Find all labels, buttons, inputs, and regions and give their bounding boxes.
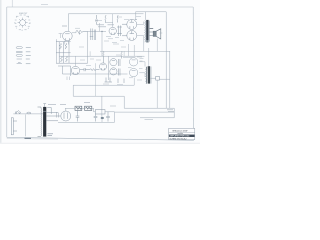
caption under bottom border bbox=[25, 137, 32, 139]
speaker 1 bbox=[149, 29, 160, 39]
mains input terminal bbox=[11, 118, 17, 135]
vertical from lower amp to dist bbox=[133, 78, 135, 86]
output tube V4 bbox=[127, 30, 137, 40]
plate resistors above driver row bbox=[95, 15, 118, 25]
OPT2 primary winding bbox=[145, 67, 148, 84]
mains wires and switch bbox=[13, 113, 43, 115]
OPT2 core bar bbox=[148, 66, 150, 83]
wire: drop to V1 bbox=[67, 14, 69, 31]
psu label dashes bbox=[48, 103, 116, 106]
drawing border frame bbox=[7, 7, 194, 141]
driver cluster noise bbox=[104, 37, 124, 43]
socket ticks bbox=[57, 113, 59, 118]
rectifier tube bbox=[61, 111, 71, 121]
tube V1 bbox=[63, 31, 73, 41]
output tube V3 bbox=[127, 19, 137, 29]
third filter box bbox=[95, 110, 105, 114]
wire: drop to V3 top cap bbox=[135, 12, 137, 20]
filter wiring bbox=[65, 108, 115, 112]
cap cluster right of V1 bbox=[90, 29, 96, 41]
power transformer primary winding bbox=[38, 107, 42, 136]
transformer side leads bbox=[46, 112, 60, 121]
tube pinout circle bbox=[18, 18, 28, 28]
junction dot bbox=[101, 31, 102, 32]
tube pinout label 6SN7GT bbox=[19, 13, 28, 15]
filter chokes bbox=[75, 106, 92, 110]
resistor bank zigzags bbox=[60, 43, 68, 62]
mid horizontal rail y56 bbox=[59, 55, 144, 57]
wire: drop to OPT1 bbox=[145, 12, 147, 20]
tube V2 bbox=[109, 27, 116, 34]
V1 grid resistor left bbox=[59, 34, 63, 39]
vertical bus at x87.6 bbox=[87, 31, 89, 63]
wire y74 lower row bbox=[71, 73, 128, 75]
plate leads to OPT2 bbox=[139, 62, 145, 77]
V2 plate to top rail bbox=[112, 14, 114, 27]
OPT1 secondary line bbox=[148, 21, 150, 42]
label above transformer bbox=[48, 134, 54, 136]
wire: upper cap rail bbox=[136, 11, 167, 13]
left bus vertical bbox=[56, 39, 58, 63]
plate leads to OPT1 bbox=[136, 22, 143, 41]
label dashes under rail bbox=[167, 110, 174, 112]
plate wire V1 to driver bbox=[72, 31, 76, 32]
B+ distribution right bbox=[124, 107, 174, 109]
V1 cathode leads bbox=[65, 41, 69, 45]
vertical from junction bbox=[101, 31, 103, 56]
V1b output network bbox=[80, 68, 100, 71]
legend text dashes bbox=[26, 48, 31, 64]
scan edge bottom bbox=[0, 143, 200, 144]
ground bus bbox=[58, 121, 115, 123]
vertical to transformer bottom bbox=[25, 115, 27, 137]
parts legend column bbox=[16, 47, 22, 64]
margin note above border bbox=[41, 4, 48, 6]
dark band row 3 bbox=[169, 135, 195, 137]
secondary horizontal y51.5 bbox=[100, 50, 170, 52]
OPT1 core bar lower lighter bbox=[146, 40, 148, 43]
ground/distribution rectangle bbox=[73, 84, 134, 86]
faint component labels (smudge dashes) bbox=[75, 17, 142, 85]
output terminal square bbox=[156, 76, 160, 80]
coupling to output tubes bbox=[122, 24, 127, 36]
V1b left box bbox=[63, 66, 71, 76]
lower row misc vertical x134 bbox=[129, 41, 144, 57]
scan edge left bbox=[0, 0, 2, 144]
svg-text:SCHEM 1953 No A-2: SCHEM 1953 No A-2 bbox=[170, 137, 187, 140]
page background bbox=[0, 0, 200, 144]
tubes V3b/V4b stacked bbox=[110, 59, 117, 66]
transformer top lead bbox=[43, 104, 46, 107]
long vertical lower cluster bbox=[107, 56, 109, 80]
driver label rows bbox=[97, 23, 114, 27]
OPT1 primary winding bbox=[144, 21, 147, 43]
title block bbox=[169, 128, 195, 140]
wire: top B+ rail bbox=[68, 13, 143, 15]
top margin tick bbox=[11, 0, 13, 7]
tube pinout pin labels bbox=[14, 17, 31, 32]
fuse bbox=[27, 112, 31, 114]
lower channel: drop to V1b bbox=[75, 56, 77, 66]
wire pot to junction bbox=[88, 30, 106, 32]
wire riser at x99.5 bbox=[99, 23, 101, 31]
V1b below marks bbox=[67, 77, 70, 81]
inner border shadow line bottom-left bbox=[7, 138, 58, 140]
svg-text:Williamson 25W: Williamson 25W bbox=[172, 131, 187, 133]
OPT2 feed from above bbox=[148, 48, 150, 66]
filter caps bbox=[76, 109, 110, 121]
OPT2 secondary line bbox=[150, 67, 152, 84]
potentiometer after V1 bbox=[76, 30, 88, 34]
right side verticals bbox=[165, 12, 167, 108]
V1 label smudge bbox=[62, 25, 67, 27]
svg-text:AMPLIFIER PWR 1953: AMPLIFIER PWR 1953 bbox=[170, 135, 190, 138]
power transformer core bar bbox=[43, 107, 46, 137]
OPT1 core bar dark bbox=[146, 20, 148, 40]
V3 top cap tick bbox=[135, 19, 137, 21]
pinout surrounding specks bbox=[15, 15, 31, 30]
lower cluster resistors under row bbox=[105, 78, 125, 84]
coupling caps vertical right of V2 bbox=[117, 26, 122, 37]
coupling caps lower bbox=[118, 59, 120, 76]
transformer secondary lead down bbox=[47, 108, 51, 114]
output tubes lower pair bbox=[129, 58, 137, 66]
resistor bank rails bbox=[56, 42, 88, 66]
tube V1b bbox=[71, 66, 79, 74]
screen resistors lower row bbox=[103, 51, 122, 63]
tube V2b bbox=[99, 63, 106, 70]
